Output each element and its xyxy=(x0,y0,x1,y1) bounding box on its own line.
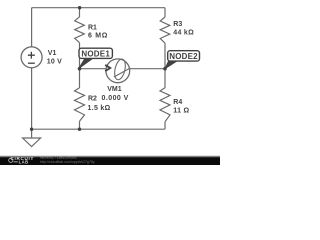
voltage source V1 xyxy=(21,47,42,68)
wire R3 top lead xyxy=(164,8,166,17)
resistor R2 xyxy=(75,88,85,122)
node NODE2 junction dot xyxy=(163,67,167,71)
wire R3 bottom lead to node B xyxy=(164,43,166,69)
wire R4 bottom lead xyxy=(164,122,166,129)
wire bottom xyxy=(32,128,165,130)
node NODE2 flag pointer xyxy=(165,61,177,69)
svg-text:R2: R2 xyxy=(88,96,97,103)
svg-text:6 MΩ: 6 MΩ xyxy=(88,33,108,40)
wire voltmeter horizontal xyxy=(80,68,166,70)
node NODE1 flag pointer xyxy=(78,59,92,69)
resistor R3 xyxy=(160,17,170,43)
V1 plus sign xyxy=(28,52,35,59)
svg-text:http://circuitlab.com/cpyxkk27: http://circuitlab.com/cpyxkk27g78y xyxy=(40,160,95,164)
svg-text:NODE1: NODE1 xyxy=(81,49,110,58)
svg-text:R1: R1 xyxy=(88,25,97,32)
svg-text:V1: V1 xyxy=(48,50,57,57)
V1 minus sign xyxy=(28,62,35,64)
svg-text:R4: R4 xyxy=(173,99,182,106)
node NODE1 junction dot xyxy=(78,67,82,71)
wire R2 top lead xyxy=(79,69,81,88)
resistor R1 xyxy=(75,17,85,43)
svg-text:44 kΩ: 44 kΩ xyxy=(173,29,194,36)
svg-text:VM1: VM1 xyxy=(107,86,122,93)
voltmeter VM1 xyxy=(105,58,130,83)
wire R1 bottom lead to node A xyxy=(79,43,81,69)
node NODE2 box xyxy=(168,51,200,61)
svg-text:11 Ω: 11 Ω xyxy=(173,108,189,115)
wire left branch lower xyxy=(31,68,33,129)
junction dot top R1 xyxy=(78,6,81,9)
node NODE1 box xyxy=(79,48,112,58)
svg-text:1.5 kΩ: 1.5 kΩ xyxy=(88,105,111,112)
svg-text:LAB: LAB xyxy=(19,160,29,165)
wire R4 top lead xyxy=(164,69,166,88)
wire top xyxy=(32,7,165,9)
wire R1 top lead xyxy=(79,8,81,17)
svg-text:0.000 V: 0.000 V xyxy=(102,95,129,102)
ground xyxy=(23,129,41,146)
wire left branch upper xyxy=(31,8,33,47)
wire R2 bottom lead xyxy=(79,121,81,129)
resistor R4 xyxy=(160,88,170,122)
junction dot bottom R2 xyxy=(78,128,81,131)
svg-text:10 V: 10 V xyxy=(47,59,62,66)
junction dot bottom ground xyxy=(30,128,33,131)
svg-text:R3: R3 xyxy=(173,21,182,28)
svg-text:NODE2: NODE2 xyxy=(169,52,198,61)
